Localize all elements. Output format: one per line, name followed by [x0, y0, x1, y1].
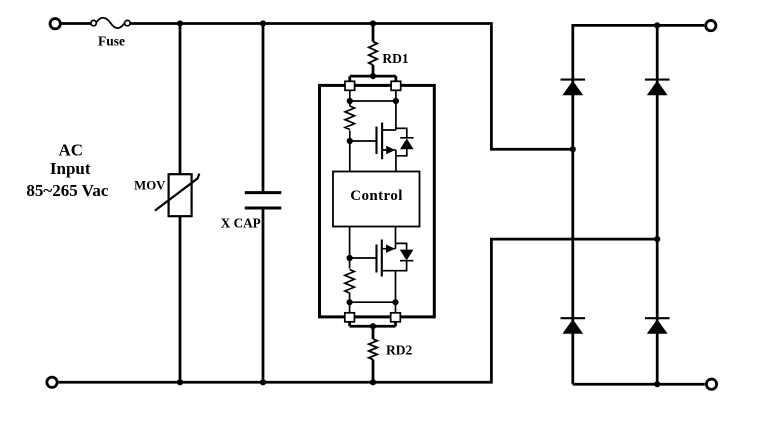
svg-text:Fuse: Fuse [98, 33, 125, 48]
svg-text:RD2: RD2 [386, 343, 412, 358]
svg-text:RD1: RD1 [382, 51, 408, 66]
svg-text:Input: Input [50, 159, 91, 178]
svg-text:MOV: MOV [134, 178, 166, 192]
svg-text:Control: Control [350, 188, 403, 204]
svg-text:85~265 Vac: 85~265 Vac [26, 181, 108, 200]
svg-text:AC: AC [59, 141, 84, 160]
svg-text:X CAP: X CAP [221, 216, 261, 231]
